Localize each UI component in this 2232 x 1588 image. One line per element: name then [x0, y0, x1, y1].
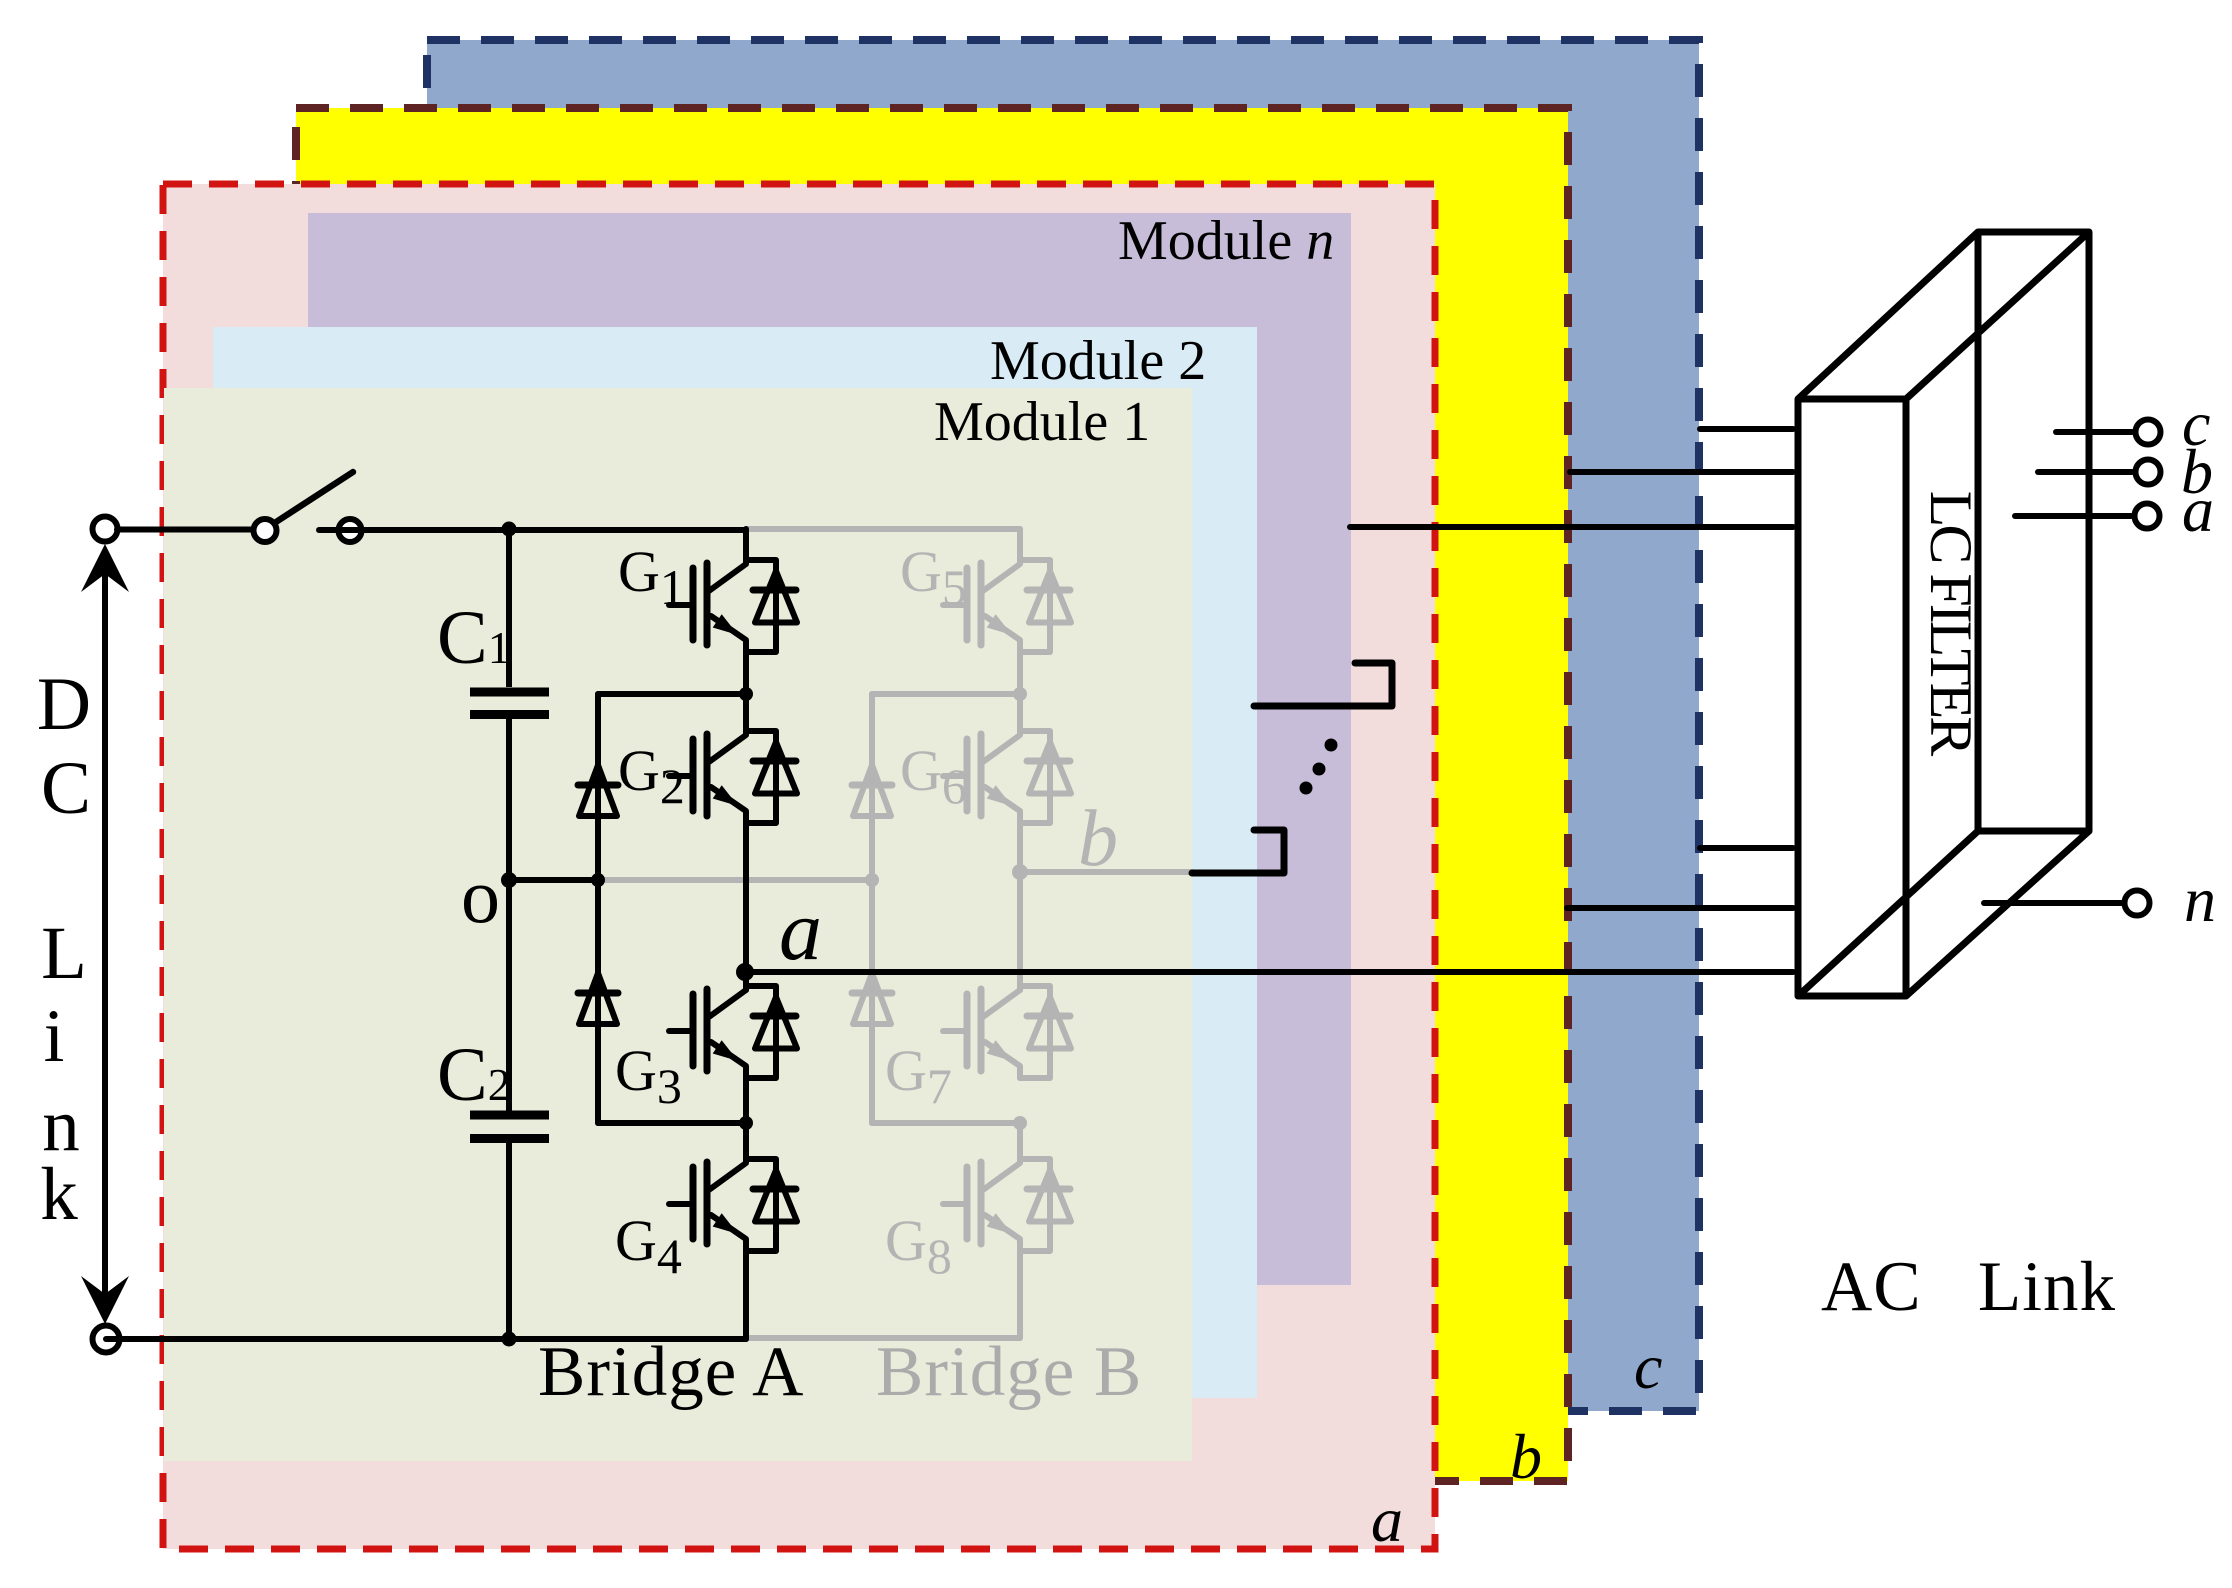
- clamp diode DA1: [578, 765, 618, 816]
- phase b panel: [296, 108, 1568, 1481]
- top rail wire: [319, 527, 746, 533]
- transistor G5: [943, 529, 1071, 652]
- svg-text:b: b: [1078, 795, 1118, 883]
- clamp diode DB2: [852, 973, 892, 1024]
- ellipsis dot 3: [1300, 782, 1313, 795]
- svg-text:a: a: [779, 882, 822, 978]
- switch pole circle: [254, 519, 277, 542]
- svg-text:Bridge B: Bridge B: [876, 1333, 1142, 1411]
- junction dot clamp o-line B: [865, 873, 879, 887]
- wire phase a to filter: [1350, 524, 1793, 530]
- clamp chain A vertical wire: [595, 694, 601, 1123]
- junction dot clamp o-line A: [591, 873, 605, 887]
- svg-text:Module n: Module n: [1118, 210, 1334, 272]
- svg-text:Module 1: Module 1: [934, 391, 1150, 453]
- module n upper hook wire: [1254, 663, 1392, 706]
- wire phase c to filter: [1700, 426, 1793, 432]
- Bridge B o-line wire: [599, 877, 872, 883]
- module n lower hook wire: [1192, 830, 1284, 873]
- svg-text:L: L: [41, 912, 87, 995]
- terminal c: [2136, 420, 2161, 445]
- phase a panel: [163, 184, 1435, 1549]
- node b dot: [1012, 864, 1028, 880]
- wire phase b to filter: [1570, 469, 1793, 475]
- DC link arrowhead up: [81, 544, 129, 592]
- module 2 panel: [213, 327, 1257, 1398]
- DC link measure line: [102, 556, 108, 1310]
- DC link terminal top: [93, 517, 118, 542]
- wire G1 emitter to junction: [743, 652, 749, 694]
- wire G5 emitter to junction: [1017, 652, 1023, 694]
- o-line wire: [509, 877, 599, 883]
- wire node b output: [1020, 869, 1192, 875]
- svg-text:D: D: [37, 663, 91, 746]
- wire to terminal a: [2015, 513, 2131, 519]
- terminal n: [2125, 891, 2150, 916]
- transistor G1: [669, 529, 797, 652]
- wire G5-G6 junction to clamp chain: [872, 691, 1020, 697]
- svg-text:Module 2: Module 2: [990, 330, 1206, 392]
- wire G7-G8 junction to clamp chain: [872, 1120, 1020, 1126]
- wire to terminal b: [2038, 469, 2132, 475]
- svg-text:a: a: [2182, 474, 2214, 545]
- node a dot: [736, 963, 754, 981]
- node o dot: [501, 872, 517, 888]
- transistor G6: [943, 700, 1071, 823]
- ellipsis dot 2: [1313, 763, 1326, 776]
- switch blade: [276, 472, 353, 522]
- Bridge B clamp chain vertical wire: [869, 694, 875, 1123]
- wire phase b return: [1567, 905, 1793, 911]
- capacitor C2: [470, 880, 549, 1339]
- wire phase c return: [1700, 845, 1793, 851]
- wire G4 emitter to bottom rail: [743, 1251, 749, 1339]
- module n panel: [308, 213, 1351, 1285]
- wire to terminal c: [2056, 429, 2132, 435]
- wire junction J2 to clamp chain A lower: [598, 1120, 746, 1126]
- transistor G7: [943, 955, 1071, 1078]
- svg-text:n: n: [2184, 864, 2216, 935]
- terminal b: [2136, 460, 2161, 485]
- wire G2 emitter to node a: [743, 823, 749, 990]
- svg-text:AC Link: AC Link: [1821, 1248, 2116, 1326]
- wire terminal to switch: [117, 527, 254, 533]
- svg-text:Bridge A: Bridge A: [538, 1333, 804, 1411]
- svg-text:o: o: [461, 852, 500, 939]
- bottom rail wire: [106, 1336, 746, 1342]
- svg-text:c: c: [1634, 1331, 1662, 1402]
- Bridge B bottom rail wire: [746, 1335, 1020, 1341]
- clamp diode DB1: [852, 765, 892, 816]
- svg-text:k: k: [40, 1153, 78, 1236]
- junction dot top rail: [502, 522, 517, 537]
- ellipsis dot 1: [1325, 739, 1338, 752]
- junction dot G7-G8: [1013, 1116, 1027, 1130]
- transistor G8: [943, 1128, 1071, 1251]
- junction dot G1-G2: [739, 687, 753, 701]
- junction dot G5-G6: [1013, 687, 1027, 701]
- svg-text:b: b: [1510, 1421, 1542, 1492]
- wire junction to G6 collector: [1017, 694, 1023, 700]
- wire G6 emitter to G7 collector: [1017, 823, 1023, 990]
- transistor G3: [669, 955, 797, 1078]
- wire G8 emitter to bottom rail: [1017, 1251, 1023, 1338]
- transistor G4: [669, 1128, 797, 1251]
- Bridge B (ghost) top rail wire: [599, 529, 1192, 1338]
- svg-text:LC FILTER: LC FILTER: [1918, 491, 1984, 756]
- wire node a to filter: [745, 969, 1793, 975]
- wire J2B to G8 collector: [1017, 1123, 1023, 1128]
- LC filter box: [1798, 232, 2089, 996]
- DC link arrowhead down: [81, 1276, 129, 1324]
- wire G3 emitter to junction J2: [743, 1078, 749, 1128]
- DC link terminal bottom: [93, 1326, 120, 1353]
- junction dot bottom rail: [502, 1332, 517, 1347]
- clamp diode DA2: [578, 973, 618, 1024]
- capacitor C1: [470, 529, 549, 880]
- phase c panel: [427, 40, 1699, 1411]
- svg-text:a: a: [1371, 1484, 1403, 1555]
- transistor G2: [669, 700, 797, 823]
- wire junction to clamp chain A upper: [598, 691, 746, 697]
- terminal a: [2135, 504, 2160, 529]
- module 1 panel: [164, 388, 1192, 1461]
- wire to terminal n: [1984, 900, 2122, 906]
- junction dot G3-G4: [739, 1116, 753, 1130]
- svg-text:C: C: [41, 747, 91, 830]
- switch throw circle: [339, 519, 362, 542]
- svg-text:i: i: [44, 995, 65, 1078]
